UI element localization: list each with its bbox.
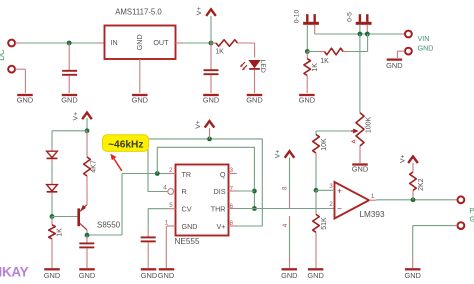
wire CV to C3 [148, 209, 167, 228]
LED LED1 [249, 60, 260, 67]
resistor R6 51K [315, 190, 317, 211]
supply V+ for R9 [408, 156, 418, 163]
pot wiper arrow [316, 130, 351, 132]
wire THR to comparator negative input [237, 208, 335, 210]
svg-text:GND: GND [307, 271, 323, 280]
wire LED to GND [254, 70, 256, 93]
IC1 pin 8 V+ stub [229, 225, 237, 227]
potentiometer R4 100K [356, 113, 364, 146]
svg-text:V+: V+ [275, 150, 282, 159]
U2 output pin 1 [369, 199, 376, 201]
svg-text:6: 6 [230, 203, 234, 210]
IC1 pin 6 THR stub [229, 208, 237, 210]
svg-text:8: 8 [230, 220, 234, 227]
wire TR node to transistor collector net [157, 173, 167, 175]
node junction divider [314, 188, 319, 193]
comparator U2 LM393 triangle [335, 182, 370, 219]
connector pin X1-2 (power input -) [8, 66, 15, 73]
connector pin VIN [405, 31, 412, 38]
node junction SJ2 right [365, 32, 370, 37]
svg-text:VIN: VIN [418, 34, 430, 43]
svg-text:8: 8 [282, 186, 289, 190]
resistor R2 1K (horizontal) [307, 51, 318, 53]
diode D1 [51, 147, 53, 151]
svg-text:1: 1 [165, 219, 169, 226]
svg-text:NKAY: NKAY [0, 265, 29, 280]
node collector junction [85, 233, 90, 238]
svg-text:−: − [337, 204, 342, 213]
svg-text:GND: GND [281, 271, 297, 280]
IC1 pin 1 GND stub [167, 225, 176, 227]
ground under U1 [132, 94, 148, 96]
wire input GND pin to ground [397, 50, 404, 52]
ground under C1 [62, 94, 78, 96]
U2 pin 3 + input [316, 189, 335, 191]
svg-text:3: 3 [329, 183, 333, 190]
svg-text:A: A [351, 139, 357, 143]
wire X1-2 to GND [15, 68, 25, 70]
jumper SJ2 0-5 [359, 14, 361, 22]
wire output GND to ground [413, 225, 454, 227]
node V+ left junction [85, 128, 90, 133]
svg-text:0-5: 0-5 [347, 12, 354, 22]
node TR junction [155, 171, 160, 176]
ground under LED [247, 94, 263, 96]
IC1 pin 4 R inverted stub [168, 189, 174, 195]
connector pin PWM output [454, 199, 458, 201]
IC1 pin 2 TR stub [168, 173, 176, 175]
ground under X1-2 [17, 94, 33, 96]
svg-text:R: R [182, 187, 187, 196]
resistor R5 10K [313, 135, 320, 154]
resistor R3 1K (vertical) [306, 52, 308, 59]
svg-text:GND: GND [17, 96, 33, 105]
svg-text:5: 5 [169, 202, 173, 209]
capacitor C2 [210, 43, 212, 69]
wire TR-DIS-THR loop (inner) [157, 147, 254, 208]
wire R1 to LED [254, 43, 256, 58]
svg-text:1K: 1K [320, 58, 329, 65]
IC1 pin 3 Q stub [229, 173, 237, 175]
regulator U1 AMS1117-5.0 box [105, 26, 176, 60]
svg-text:GND: GND [135, 34, 144, 50]
wire U1 OUT to 5V node [176, 42, 184, 44]
supply V+ left branch [82, 113, 92, 120]
U1 GND pin wire [139, 59, 141, 93]
svg-text:V+: V+ [72, 112, 79, 121]
node DIS junction [252, 189, 257, 194]
svg-text:V+: V+ [217, 222, 226, 231]
node THR junction [252, 206, 257, 211]
wire R2 right to SJ2 right pin [350, 51, 368, 53]
ground at input connector [387, 58, 403, 60]
capacitor C4 (timing) [86, 235, 88, 243]
node junction SJ1/R divider [305, 49, 310, 54]
annotation arrow [113, 157, 122, 171]
wire SJ2 right pin [366, 25, 368, 34]
svg-text:GND: GND [299, 96, 315, 105]
resistor R7 1K (base pulldown) [51, 217, 53, 222]
wire base node to Q1 base [52, 216, 78, 218]
U2 pin 8 power stub [289, 193, 291, 208]
svg-text:100K: 100K [366, 117, 373, 134]
svg-text:1K: 1K [57, 228, 64, 237]
wire D2 to base node [51, 196, 53, 216]
svg-text:S8550: S8550 [97, 221, 121, 230]
svg-text:LED: LED [259, 60, 266, 73]
svg-text:GND: GND [141, 271, 157, 280]
svg-text:GND: GND [132, 96, 148, 105]
ground under pot [352, 163, 368, 165]
wire DIS to loop [237, 190, 255, 192]
ground under IC1 GND [159, 268, 175, 270]
svg-text:7: 7 [230, 185, 234, 192]
svg-text:2K2: 2K2 [418, 178, 425, 191]
svg-text:V+: V+ [196, 7, 203, 16]
svg-text:1K: 1K [312, 63, 319, 72]
svg-text:GND: GND [386, 61, 402, 70]
svg-text:CV: CV [182, 205, 192, 214]
svg-text:4: 4 [163, 185, 167, 192]
resistor R1 1K (LED series) [211, 42, 216, 44]
ground under R7 [44, 268, 60, 270]
ground under R6 [308, 268, 324, 270]
svg-text:GND: GND [79, 271, 95, 280]
node 5V junction [209, 41, 214, 46]
svg-text:GND: GND [352, 165, 368, 174]
svg-text:~46kHz: ~46kHz [108, 140, 143, 151]
resistor R8 4K7 [86, 131, 88, 157]
supply V+ above 5V node [210, 16, 212, 43]
svg-text:NE555: NE555 [175, 237, 200, 246]
svg-text:Q: Q [220, 170, 226, 179]
svg-text:51K: 51K [321, 217, 328, 230]
svg-text:IN: IN [111, 38, 118, 47]
wire wiper to R5 10K [315, 131, 317, 135]
wire X1-1 to regulator IN [15, 42, 21, 44]
svg-text:1K: 1K [215, 49, 224, 56]
transistor Q1 S8550 (PNP) [77, 208, 80, 226]
timer IC1 NE555 box [176, 165, 229, 236]
ground under C2 [203, 94, 219, 96]
svg-text:2: 2 [169, 167, 173, 174]
node base junction [50, 214, 55, 219]
svg-text:GND: GND [404, 271, 420, 280]
svg-text:OUT: OUT [153, 38, 169, 47]
capacitor C1 [68, 43, 70, 70]
svg-text:THR: THR [211, 205, 226, 214]
svg-text:TR: TR [182, 170, 192, 179]
node output junction [411, 197, 416, 202]
svg-text:GND: GND [44, 271, 60, 280]
connector pin GND (input) [405, 48, 412, 55]
svg-text:GND: GND [61, 96, 77, 105]
ground under C3 [141, 268, 157, 270]
svg-text:0-10: 0-10 [294, 9, 301, 23]
svg-text:GND: GND [182, 222, 198, 231]
supply V+ for IC1 [209, 128, 211, 139]
svg-text:LM393: LM393 [360, 210, 385, 219]
ground under output connector [405, 268, 421, 270]
connector pin X1-1 (power input +) [8, 40, 15, 47]
svg-text:AMS1117-5.0: AMS1117-5.0 [115, 8, 162, 17]
wire V+ to diodes [52, 130, 87, 132]
wire output to PWM pin [376, 199, 453, 201]
ground under R3 [299, 94, 315, 96]
svg-text:3: 3 [230, 167, 234, 174]
node V+ rail junction [207, 137, 212, 142]
svg-text:GND: GND [203, 96, 219, 105]
svg-text:+: + [337, 186, 342, 195]
svg-text:DC: DC [0, 49, 6, 61]
ground under U2 pin4 [282, 268, 298, 270]
svg-text:GND: GND [246, 96, 262, 105]
svg-text:V+: V+ [399, 155, 406, 164]
capacitor C3 (CV bypass) [141, 236, 156, 238]
net label DC (clipped at edge) [0, 49, 6, 61]
node junction SJ2 left [358, 32, 363, 37]
connector pin output GND [458, 222, 465, 229]
jumper SJ1 0-10 [306, 14, 308, 22]
svg-text:V+: V+ [195, 120, 202, 129]
annotation bubble ~46kHz [103, 135, 149, 152]
wire SJ1 right pin to VIN rail [314, 25, 316, 34]
svg-text:DIS: DIS [214, 187, 226, 196]
wire IC1 GND pin to ground [165, 226, 167, 268]
wire SJ1 left pin down [306, 25, 308, 52]
resistor R9 2K2 (pullup) [412, 190, 414, 199]
wire D1 to D2 [51, 163, 53, 181]
wire pot to GND [359, 146, 361, 163]
ground under C4 [79, 268, 95, 270]
svg-text:GND: GND [470, 214, 474, 223]
diode D2 [51, 181, 53, 185]
svg-text:4: 4 [282, 223, 289, 227]
wire SJ2 left pin to pot [359, 25, 361, 34]
wire R(4)-V+(8) loop (outer) [148, 139, 262, 226]
svg-text:1: 1 [371, 193, 375, 200]
svg-text:10K: 10K [321, 138, 328, 151]
svg-text:GND: GND [158, 271, 174, 280]
node junction at C1 top [67, 41, 72, 46]
svg-text:GND: GND [418, 44, 434, 53]
svg-text:2: 2 [329, 201, 333, 208]
supply V+ for U2 [285, 151, 295, 158]
U2 pin 4 power stub [289, 216, 291, 224]
IC1 pin 5 CV stub [168, 208, 176, 210]
svg-text:4K7: 4K7 [90, 160, 97, 173]
IC1 pin 7 DIS stub [229, 190, 237, 192]
